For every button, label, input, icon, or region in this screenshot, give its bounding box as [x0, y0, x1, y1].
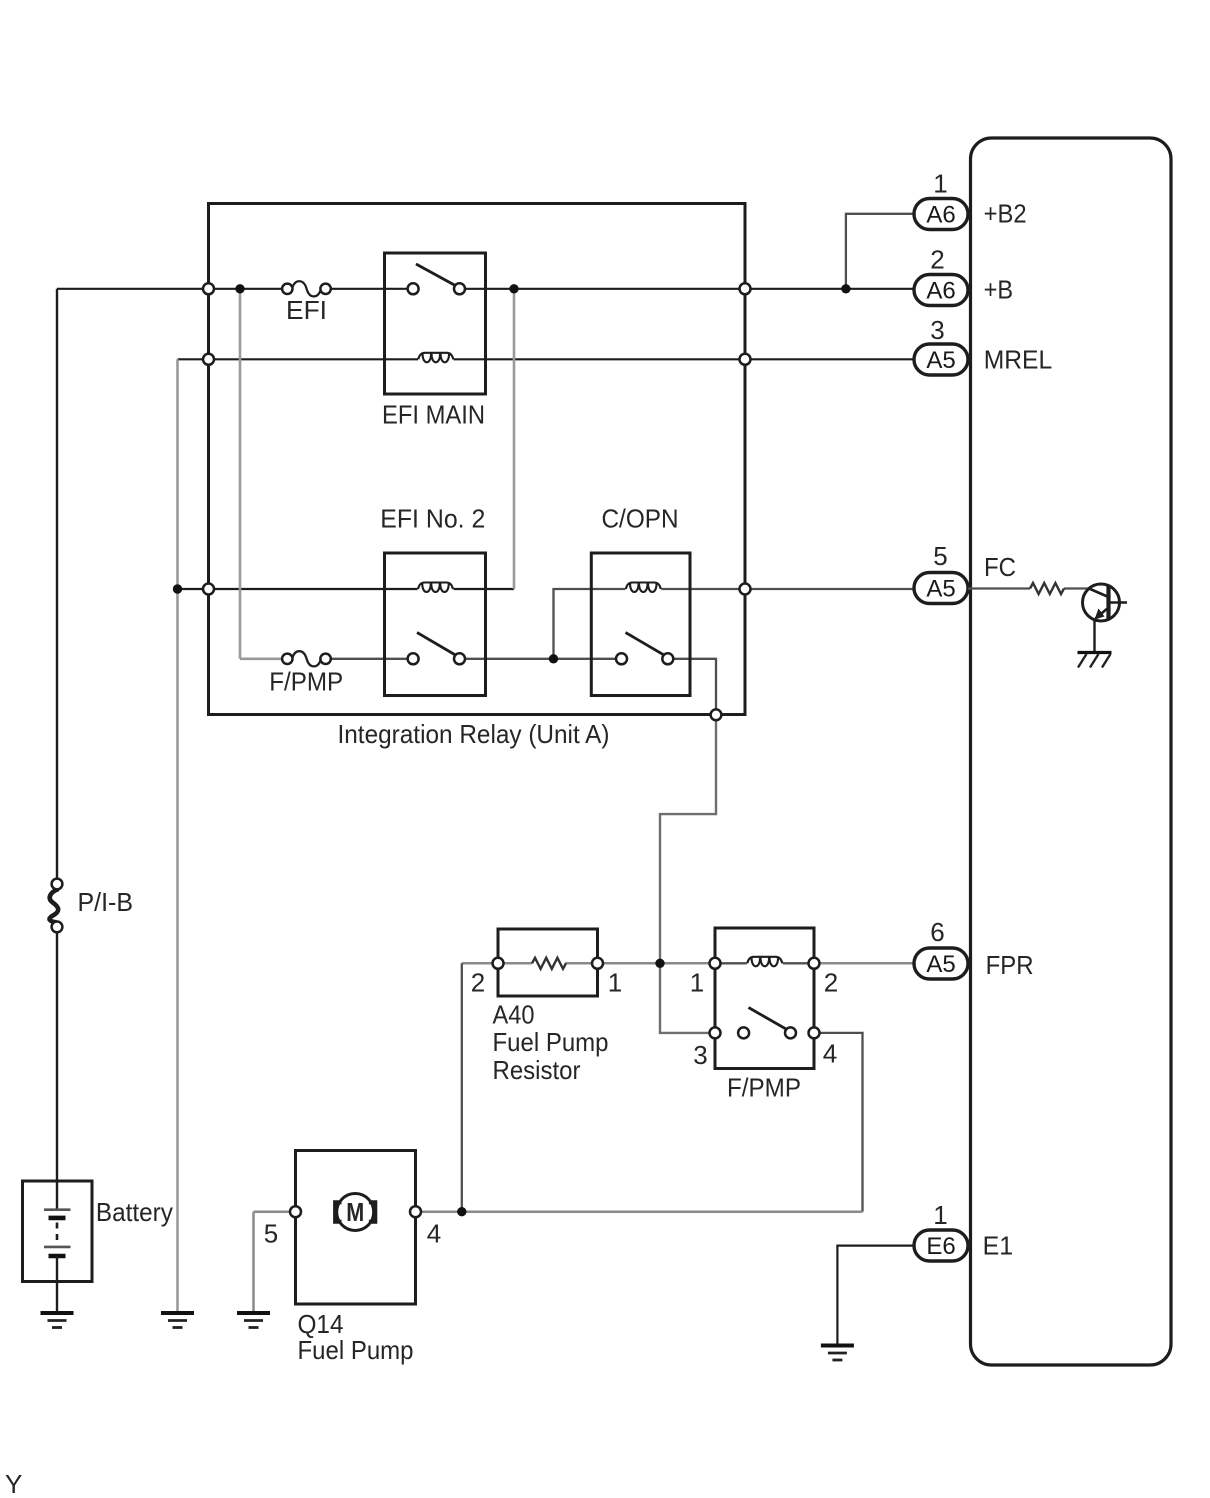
- svg-text:A5: A5: [926, 576, 955, 603]
- svg-text:+B: +B: [984, 275, 1014, 305]
- svg-text:E6: E6: [926, 1233, 955, 1260]
- svg-text:Y: Y: [5, 1469, 22, 1498]
- svg-text:EFI: EFI: [286, 295, 327, 325]
- svg-text:Fuel Pump: Fuel Pump: [298, 1335, 414, 1365]
- svg-text:A6: A6: [926, 202, 955, 229]
- motor Q14 Fuel Pump: [264, 1151, 441, 1366]
- ground E1: [821, 1346, 854, 1361]
- node circles on integration relay box edges: [203, 283, 751, 720]
- wire MREL row: [178, 358, 914, 360]
- wire C/OPN coil row and FC wire to ECM pin 5: [554, 589, 914, 659]
- svg-text:F/PMP: F/PMP: [269, 667, 343, 697]
- svg-text:2: 2: [471, 968, 485, 998]
- wire grey vertical ground run x=177.5: [176, 359, 179, 1313]
- svg-text:C/OPN: C/OPN: [602, 504, 679, 534]
- svg-text:3: 3: [693, 1040, 707, 1070]
- battery: [23, 1181, 173, 1313]
- ECM connector pin 5 A5 FC: [914, 541, 1016, 604]
- svg-text:4: 4: [427, 1219, 441, 1249]
- svg-text:Battery: Battery: [96, 1197, 173, 1227]
- ground MREL run: [161, 1313, 194, 1328]
- EFI MAIN coil: [418, 353, 453, 363]
- svg-text:5: 5: [933, 541, 947, 571]
- F/PMP coil: [710, 957, 820, 969]
- svg-text:1: 1: [690, 968, 704, 998]
- wire E1 pin to ground: [837, 1246, 913, 1346]
- wire grey vertical x=461.8 resistor branch: [461, 963, 463, 1211]
- wire A40 resistor row / F/PMP coil row y=963: [462, 962, 914, 965]
- svg-text:P/I-B: P/I-B: [78, 887, 134, 917]
- fuse F/PMP: [269, 651, 343, 696]
- svg-text:A5: A5: [926, 951, 955, 978]
- ECM connector pin 2 A6 +B: [914, 245, 1013, 306]
- fuse EFI: [282, 281, 331, 325]
- wire F/PMP pin 4 to fuel pump row: [820, 1033, 863, 1212]
- ground battery: [41, 1313, 74, 1328]
- svg-text:FC: FC: [984, 552, 1016, 582]
- wire fuel pump ground drop x=253.5: [252, 1212, 255, 1313]
- svg-text:Integration Relay (Unit A): Integration Relay (Unit A): [338, 719, 610, 749]
- svg-text:F/PMP: F/PMP: [727, 1073, 801, 1103]
- C/OPN switch: [616, 633, 673, 665]
- svg-text:EFI No. 2: EFI No. 2: [380, 504, 485, 534]
- svg-text:3: 3: [930, 315, 944, 345]
- wire +B2 branch to ECM pin 1: [846, 214, 914, 289]
- svg-text:A40: A40: [493, 1000, 535, 1030]
- EFI No.2 coil: [418, 583, 453, 593]
- relay EFI No. 2: [380, 504, 485, 696]
- svg-text:Fuel Pump: Fuel Pump: [493, 1027, 609, 1057]
- wire grey vertical x=240 from +B to F/PMP fuse row: [239, 288, 242, 659]
- ECM connector pin 1 A6 +B2: [914, 169, 1027, 230]
- svg-text:2: 2: [930, 245, 944, 275]
- EFI MAIN switch: [408, 264, 465, 294]
- svg-text:M: M: [346, 1197, 364, 1227]
- wire fuel pump row y=1212: [254, 1210, 863, 1213]
- svg-text:2: 2: [824, 968, 838, 998]
- ECM connector pin 1 E6 E1: [914, 1200, 1013, 1261]
- relay C/OPN: [591, 504, 690, 696]
- ground fuel pump: [237, 1313, 270, 1328]
- svg-text:FPR: FPR: [986, 950, 1034, 980]
- wire +B row from battery column to ECM pin 2: [57, 288, 914, 290]
- svg-text:1: 1: [608, 968, 622, 998]
- relay F/PMP: [690, 928, 838, 1103]
- svg-text:4: 4: [823, 1039, 837, 1069]
- svg-text:E1: E1: [983, 1231, 1014, 1261]
- resistor A40 Fuel Pump Resistor: [471, 929, 622, 1085]
- EFI No.2 switch: [408, 633, 465, 665]
- resistor inside ECM on FC line: [968, 583, 1089, 594]
- ECM connector pin 3 A5 MREL: [914, 315, 1052, 375]
- page letter Y: [5, 1469, 22, 1498]
- svg-text:Resistor: Resistor: [493, 1055, 581, 1085]
- svg-text:1: 1: [933, 169, 947, 199]
- C/OPN coil: [626, 583, 661, 593]
- wire grey vertical x=514 from +B to EFI No.2 coil: [513, 288, 516, 589]
- svg-text:5: 5: [264, 1219, 278, 1249]
- relay EFI MAIN: [382, 253, 486, 430]
- svg-text:+B2: +B2: [984, 199, 1027, 229]
- transistor inside ECM: [1083, 584, 1128, 652]
- F/PMP switch: [710, 1008, 820, 1039]
- svg-text:EFI MAIN: EFI MAIN: [382, 400, 485, 430]
- svg-text:A5: A5: [926, 347, 955, 374]
- svg-text:A6: A6: [926, 278, 955, 305]
- svg-text:1: 1: [933, 1200, 947, 1230]
- ECM connector pin 6 A5 FPR: [914, 917, 1034, 980]
- ECM box: [971, 138, 1172, 1365]
- wire EFI No.2 coil row: [178, 588, 515, 590]
- fusible link P/I-B: [50, 289, 133, 1210]
- chassis ground at transistor emitter: [1078, 653, 1112, 668]
- svg-text:MREL: MREL: [984, 345, 1052, 375]
- svg-text:6: 6: [930, 917, 944, 947]
- wire switch row y=659 with C/OPN output run down to F/PMP pin 3: [240, 659, 716, 1033]
- integration relay box (Unit A): [209, 204, 746, 750]
